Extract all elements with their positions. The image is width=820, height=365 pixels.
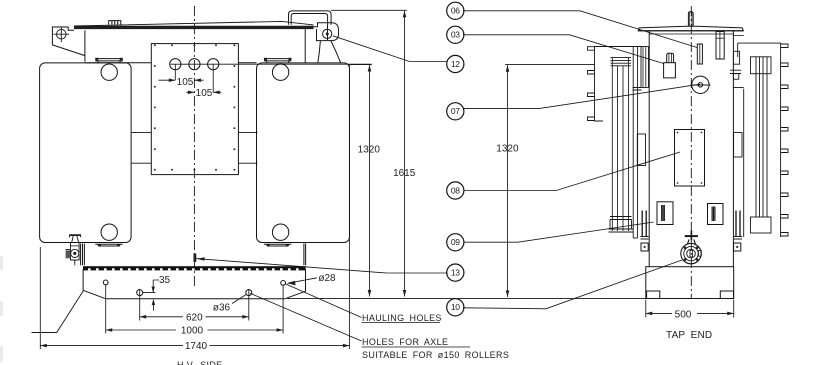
svg-text:105: 105 <box>177 77 194 88</box>
bottom flange block <box>609 217 634 233</box>
pipes <box>612 58 628 231</box>
svg-text:03: 03 <box>451 30 460 40</box>
right radiator <box>257 63 350 243</box>
lower rib <box>637 134 645 166</box>
labels <box>177 313 712 365</box>
right tabs <box>781 44 788 236</box>
svg-text:1615: 1615 <box>393 168 416 179</box>
left radiator <box>40 63 132 243</box>
svg-text:1000: 1000 <box>181 326 204 337</box>
top cover <box>638 26 743 31</box>
dim 105 #1 <box>175 64 213 92</box>
dim 1320 right <box>505 65 594 297</box>
lifting pin on cover <box>688 12 693 26</box>
left radiator bottom flange <box>95 243 122 247</box>
bottom datum extension line <box>287 298 646 300</box>
06 leader <box>463 11 697 48</box>
dim 1615 <box>331 9 407 11</box>
07 leader <box>463 84 700 108</box>
marshalling box / nameplate (08) <box>675 130 705 187</box>
tank shoulder lines <box>85 62 257 64</box>
outer outline <box>738 43 781 237</box>
08 leader <box>464 152 680 191</box>
svg-text:35: 35 <box>159 275 171 286</box>
svg-text:08: 08 <box>451 185 460 195</box>
bottom skid strip (thick dashed) <box>83 266 306 270</box>
bushing fitting right of pin <box>716 32 724 60</box>
tank lower corners <box>81 244 85 266</box>
bottom flange block <box>751 217 772 233</box>
drain valve bottom (10) <box>681 231 702 264</box>
09 leader <box>464 222 654 242</box>
svg-text:TAP END: TAP END <box>666 330 712 341</box>
leader lines from balloons <box>194 11 701 309</box>
panel bolts <box>154 44 236 171</box>
bank bottom flange pair <box>642 211 646 237</box>
wall rib <box>641 47 649 88</box>
svg-text:07: 07 <box>451 106 460 116</box>
flange block <box>751 57 772 74</box>
centre panel (cable box) <box>151 44 238 175</box>
tank body side walls <box>648 31 650 267</box>
label leaders / underlines <box>232 278 470 347</box>
dim 620 <box>140 289 249 321</box>
lower rib <box>734 133 742 158</box>
base left projection leader <box>32 291 84 333</box>
lid top slant edge <box>74 21 314 26</box>
breather box (03) <box>664 53 676 78</box>
10 leader <box>463 260 682 309</box>
base holes <box>103 280 108 285</box>
right lug bracket with pin <box>314 23 339 41</box>
left radiator plugs <box>101 64 117 80</box>
balloon numbers <box>451 6 460 313</box>
centre line (side view) <box>690 6 692 298</box>
left margin crop artifacts <box>0 256 3 362</box>
drain valve (left view) <box>65 235 81 265</box>
svg-text:ø28: ø28 <box>318 273 336 284</box>
svg-text:500: 500 <box>675 309 692 320</box>
svg-text:HAULING HOLES: HAULING HOLES <box>362 313 442 323</box>
left lifting lug plate <box>52 27 85 56</box>
dim 500 <box>646 300 734 318</box>
dim 1320 left <box>350 64 372 66</box>
svg-text:HOLES FOR AXLE: HOLES FOR AXLE <box>362 337 448 347</box>
pipe flange top <box>611 58 632 66</box>
12 leader <box>333 36 448 62</box>
13 leader <box>196 259 447 273</box>
radiator-to-panel connector lines <box>131 133 257 164</box>
base (right view) <box>646 267 734 299</box>
base (left view) <box>83 269 305 298</box>
svg-text:620: 620 <box>186 312 203 323</box>
svg-text:1320: 1320 <box>496 144 519 155</box>
jacking pads <box>641 243 741 251</box>
right radiator top flange <box>264 58 291 63</box>
svg-text:ø36: ø36 <box>213 303 231 314</box>
dim 35 <box>143 280 159 311</box>
svg-text:10: 10 <box>451 302 460 312</box>
thin rect fitting (06) <box>697 44 702 64</box>
oil gauge / thermometer (07) <box>691 76 711 93</box>
03 leader <box>463 35 664 64</box>
tank upper walls <box>84 30 86 62</box>
dimension texts <box>159 77 692 352</box>
inner left vertical <box>743 89 745 237</box>
tank lid plate <box>74 26 314 29</box>
LV bushings (3) <box>170 59 219 70</box>
lid fitting bump <box>109 21 121 25</box>
dim 1740 <box>40 65 349 350</box>
svg-text:1740: 1740 <box>185 341 208 352</box>
svg-text:105: 105 <box>196 88 213 99</box>
svg-text:SUITABLE FOR ø150 ROLLERS: SUITABLE FOR ø150 ROLLERS <box>362 350 509 360</box>
right lug bell skirt <box>318 41 341 64</box>
svg-text:09: 09 <box>451 237 460 247</box>
dim 1000 <box>106 285 283 334</box>
centre line (front view) <box>193 6 195 288</box>
right radiator bottom flange <box>264 243 291 247</box>
left lug crosshair <box>54 26 70 42</box>
bottom flange pair <box>736 211 740 237</box>
svg-text:H.V. SIDE: H.V. SIDE <box>177 360 223 365</box>
svg-text:12: 12 <box>451 59 460 69</box>
right radiator plugs <box>272 64 288 80</box>
left radiator top flange <box>95 58 122 63</box>
plate <box>595 47 642 122</box>
svg-text:13: 13 <box>451 267 460 277</box>
wall stubs <box>733 51 739 64</box>
svg-text:06: 06 <box>451 6 460 16</box>
handle U (pulling eye) on lid right <box>289 11 332 25</box>
svg-text:1320: 1320 <box>358 145 381 156</box>
long flange pair <box>633 46 637 238</box>
bushing centre leader line to callout 12? (horizontal through centres) <box>170 63 371 65</box>
valve boxes (09) <box>657 202 723 225</box>
plate tabs <box>588 47 595 121</box>
